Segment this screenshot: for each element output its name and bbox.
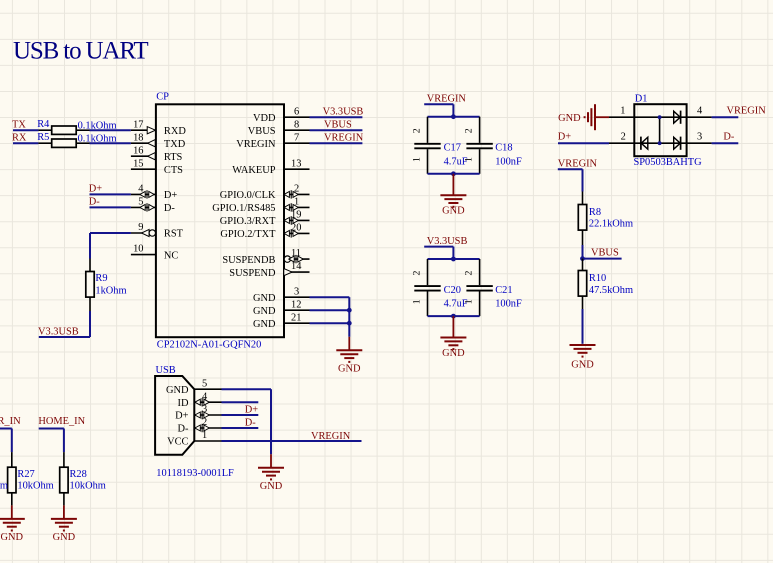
svg-text:VREGIN: VREGIN — [558, 158, 598, 169]
svg-text:D1: D1 — [635, 94, 648, 105]
svg-text:C20: C20 — [444, 285, 461, 296]
svg-text:C18: C18 — [495, 143, 512, 154]
svg-text:GPIO.3/RXT: GPIO.3/RXT — [220, 216, 276, 227]
svg-text:5: 5 — [202, 378, 207, 389]
svg-text:D-: D- — [89, 196, 101, 207]
svg-text:14: 14 — [291, 261, 302, 272]
svg-text:RTS: RTS — [164, 152, 183, 163]
svg-text:R10: R10 — [589, 273, 606, 284]
svg-text:GPIO.1/RS485: GPIO.1/RS485 — [212, 203, 275, 214]
svg-text:4.7uF: 4.7uF — [444, 299, 468, 310]
svg-text:R27: R27 — [17, 469, 34, 480]
svg-text:GPIO.2/TXT: GPIO.2/TXT — [220, 229, 276, 240]
svg-text:D-: D- — [164, 203, 176, 214]
svg-text:100nF: 100nF — [495, 299, 522, 310]
svg-text:SUSPEND: SUSPEND — [229, 268, 276, 279]
svg-text:VREGIN: VREGIN — [427, 94, 467, 105]
svg-text:CP: CP — [156, 92, 169, 103]
svg-text:D+: D+ — [89, 183, 103, 194]
svg-text:15: 15 — [133, 158, 143, 169]
svg-text:GND: GND — [253, 306, 276, 317]
svg-text:R4: R4 — [37, 119, 50, 130]
svg-text:0.1kOhm: 0.1kOhm — [78, 134, 117, 145]
svg-text:VREGIN: VREGIN — [727, 105, 767, 116]
svg-text:GND: GND — [253, 293, 276, 304]
svg-text:V3.3USB: V3.3USB — [323, 106, 364, 117]
svg-text:9: 9 — [138, 222, 143, 233]
svg-text:3: 3 — [294, 286, 299, 297]
svg-text:R9: R9 — [95, 273, 107, 284]
svg-text:V3.3USB: V3.3USB — [38, 326, 79, 337]
svg-text:10kOhm: 10kOhm — [70, 481, 106, 492]
svg-text:D-: D- — [178, 424, 190, 435]
svg-text:R_IN: R_IN — [0, 416, 21, 427]
svg-text:1: 1 — [412, 157, 423, 162]
svg-text:GND: GND — [442, 348, 465, 359]
svg-text:VBUS: VBUS — [591, 248, 619, 259]
svg-text:D+: D+ — [164, 190, 178, 201]
svg-text:WAKEUP: WAKEUP — [232, 165, 276, 176]
svg-text:D-: D- — [245, 417, 257, 428]
svg-text:VREGIN: VREGIN — [236, 139, 276, 150]
svg-text:2: 2 — [412, 271, 423, 276]
svg-text:GND: GND — [1, 532, 24, 543]
svg-text:7: 7 — [294, 132, 299, 143]
svg-text:RX: RX — [12, 132, 27, 143]
svg-text:3: 3 — [697, 131, 702, 142]
svg-text:21: 21 — [291, 312, 301, 323]
svg-text:VDD: VDD — [253, 113, 276, 124]
svg-text:GND: GND — [260, 481, 283, 492]
svg-text:GND: GND — [571, 360, 594, 371]
svg-text:ID: ID — [178, 398, 189, 409]
svg-text:TXD: TXD — [164, 139, 186, 150]
svg-text:VCC: VCC — [167, 437, 188, 448]
svg-text:VREGIN: VREGIN — [311, 431, 351, 442]
svg-text:10kOhm: 10kOhm — [0, 481, 8, 492]
svg-text:C17: C17 — [444, 143, 461, 154]
svg-text:22.1kOhm: 22.1kOhm — [589, 219, 633, 230]
svg-text:10: 10 — [133, 244, 143, 255]
svg-text:10118193-0001LF: 10118193-0001LF — [156, 468, 234, 479]
svg-text:13: 13 — [291, 158, 301, 169]
svg-text:RXD: RXD — [164, 126, 186, 137]
svg-text:TX: TX — [12, 119, 26, 130]
svg-text:1: 1 — [412, 299, 423, 304]
svg-text:16: 16 — [133, 145, 143, 156]
svg-text:12: 12 — [291, 299, 301, 310]
svg-text:10kOhm: 10kOhm — [17, 481, 53, 492]
svg-text:R5: R5 — [37, 132, 49, 143]
svg-text:18: 18 — [133, 132, 143, 143]
svg-text:2: 2 — [621, 131, 626, 142]
svg-text:17: 17 — [133, 119, 143, 130]
svg-text:GND: GND — [253, 319, 276, 330]
svg-text:GND: GND — [338, 364, 361, 375]
svg-text:R28: R28 — [70, 469, 87, 480]
svg-text:USB to UART: USB to UART — [13, 38, 148, 65]
svg-text:2: 2 — [412, 128, 423, 133]
svg-text:GND: GND — [166, 385, 189, 396]
svg-text:GPIO.0/CLK: GPIO.0/CLK — [220, 190, 276, 201]
svg-text:RST: RST — [164, 229, 184, 240]
svg-text:R8: R8 — [589, 207, 601, 218]
svg-text:GND: GND — [442, 206, 465, 217]
svg-text:2: 2 — [464, 271, 475, 276]
svg-text:47.5kOhm: 47.5kOhm — [589, 285, 633, 296]
svg-text:VREGIN: VREGIN — [324, 132, 364, 143]
svg-text:NC: NC — [164, 250, 179, 261]
svg-text:4.7uF: 4.7uF — [444, 156, 468, 167]
svg-text:1: 1 — [202, 430, 207, 441]
svg-text:C21: C21 — [495, 285, 512, 296]
svg-text:1kOhm: 1kOhm — [95, 285, 126, 296]
svg-text:VBUS: VBUS — [324, 119, 352, 130]
svg-text:CP2102N-A01-GQFN20: CP2102N-A01-GQFN20 — [157, 340, 261, 351]
svg-text:0.1kOhm: 0.1kOhm — [78, 121, 117, 132]
svg-text:V3.3USB: V3.3USB — [427, 236, 468, 247]
svg-text:D+: D+ — [245, 404, 259, 415]
svg-text:D+: D+ — [175, 411, 189, 422]
svg-text:100nF: 100nF — [495, 156, 522, 167]
svg-text:VBUS: VBUS — [248, 126, 276, 137]
svg-text:D-: D- — [723, 132, 735, 143]
svg-text:GND: GND — [53, 532, 76, 543]
svg-text:GND: GND — [558, 113, 581, 124]
svg-text:SP0503BAHTG: SP0503BAHTG — [634, 157, 703, 168]
svg-text:4: 4 — [697, 105, 703, 116]
svg-text:6: 6 — [294, 106, 299, 117]
svg-text:SUSPENDB: SUSPENDB — [222, 255, 275, 266]
svg-text:1: 1 — [620, 105, 625, 116]
svg-text:CTS: CTS — [164, 165, 183, 176]
svg-text:HOME_IN: HOME_IN — [38, 416, 85, 427]
svg-text:2: 2 — [464, 128, 475, 133]
svg-text:D+: D+ — [558, 132, 572, 143]
svg-text:8: 8 — [294, 119, 299, 130]
svg-text:USB: USB — [156, 365, 176, 376]
